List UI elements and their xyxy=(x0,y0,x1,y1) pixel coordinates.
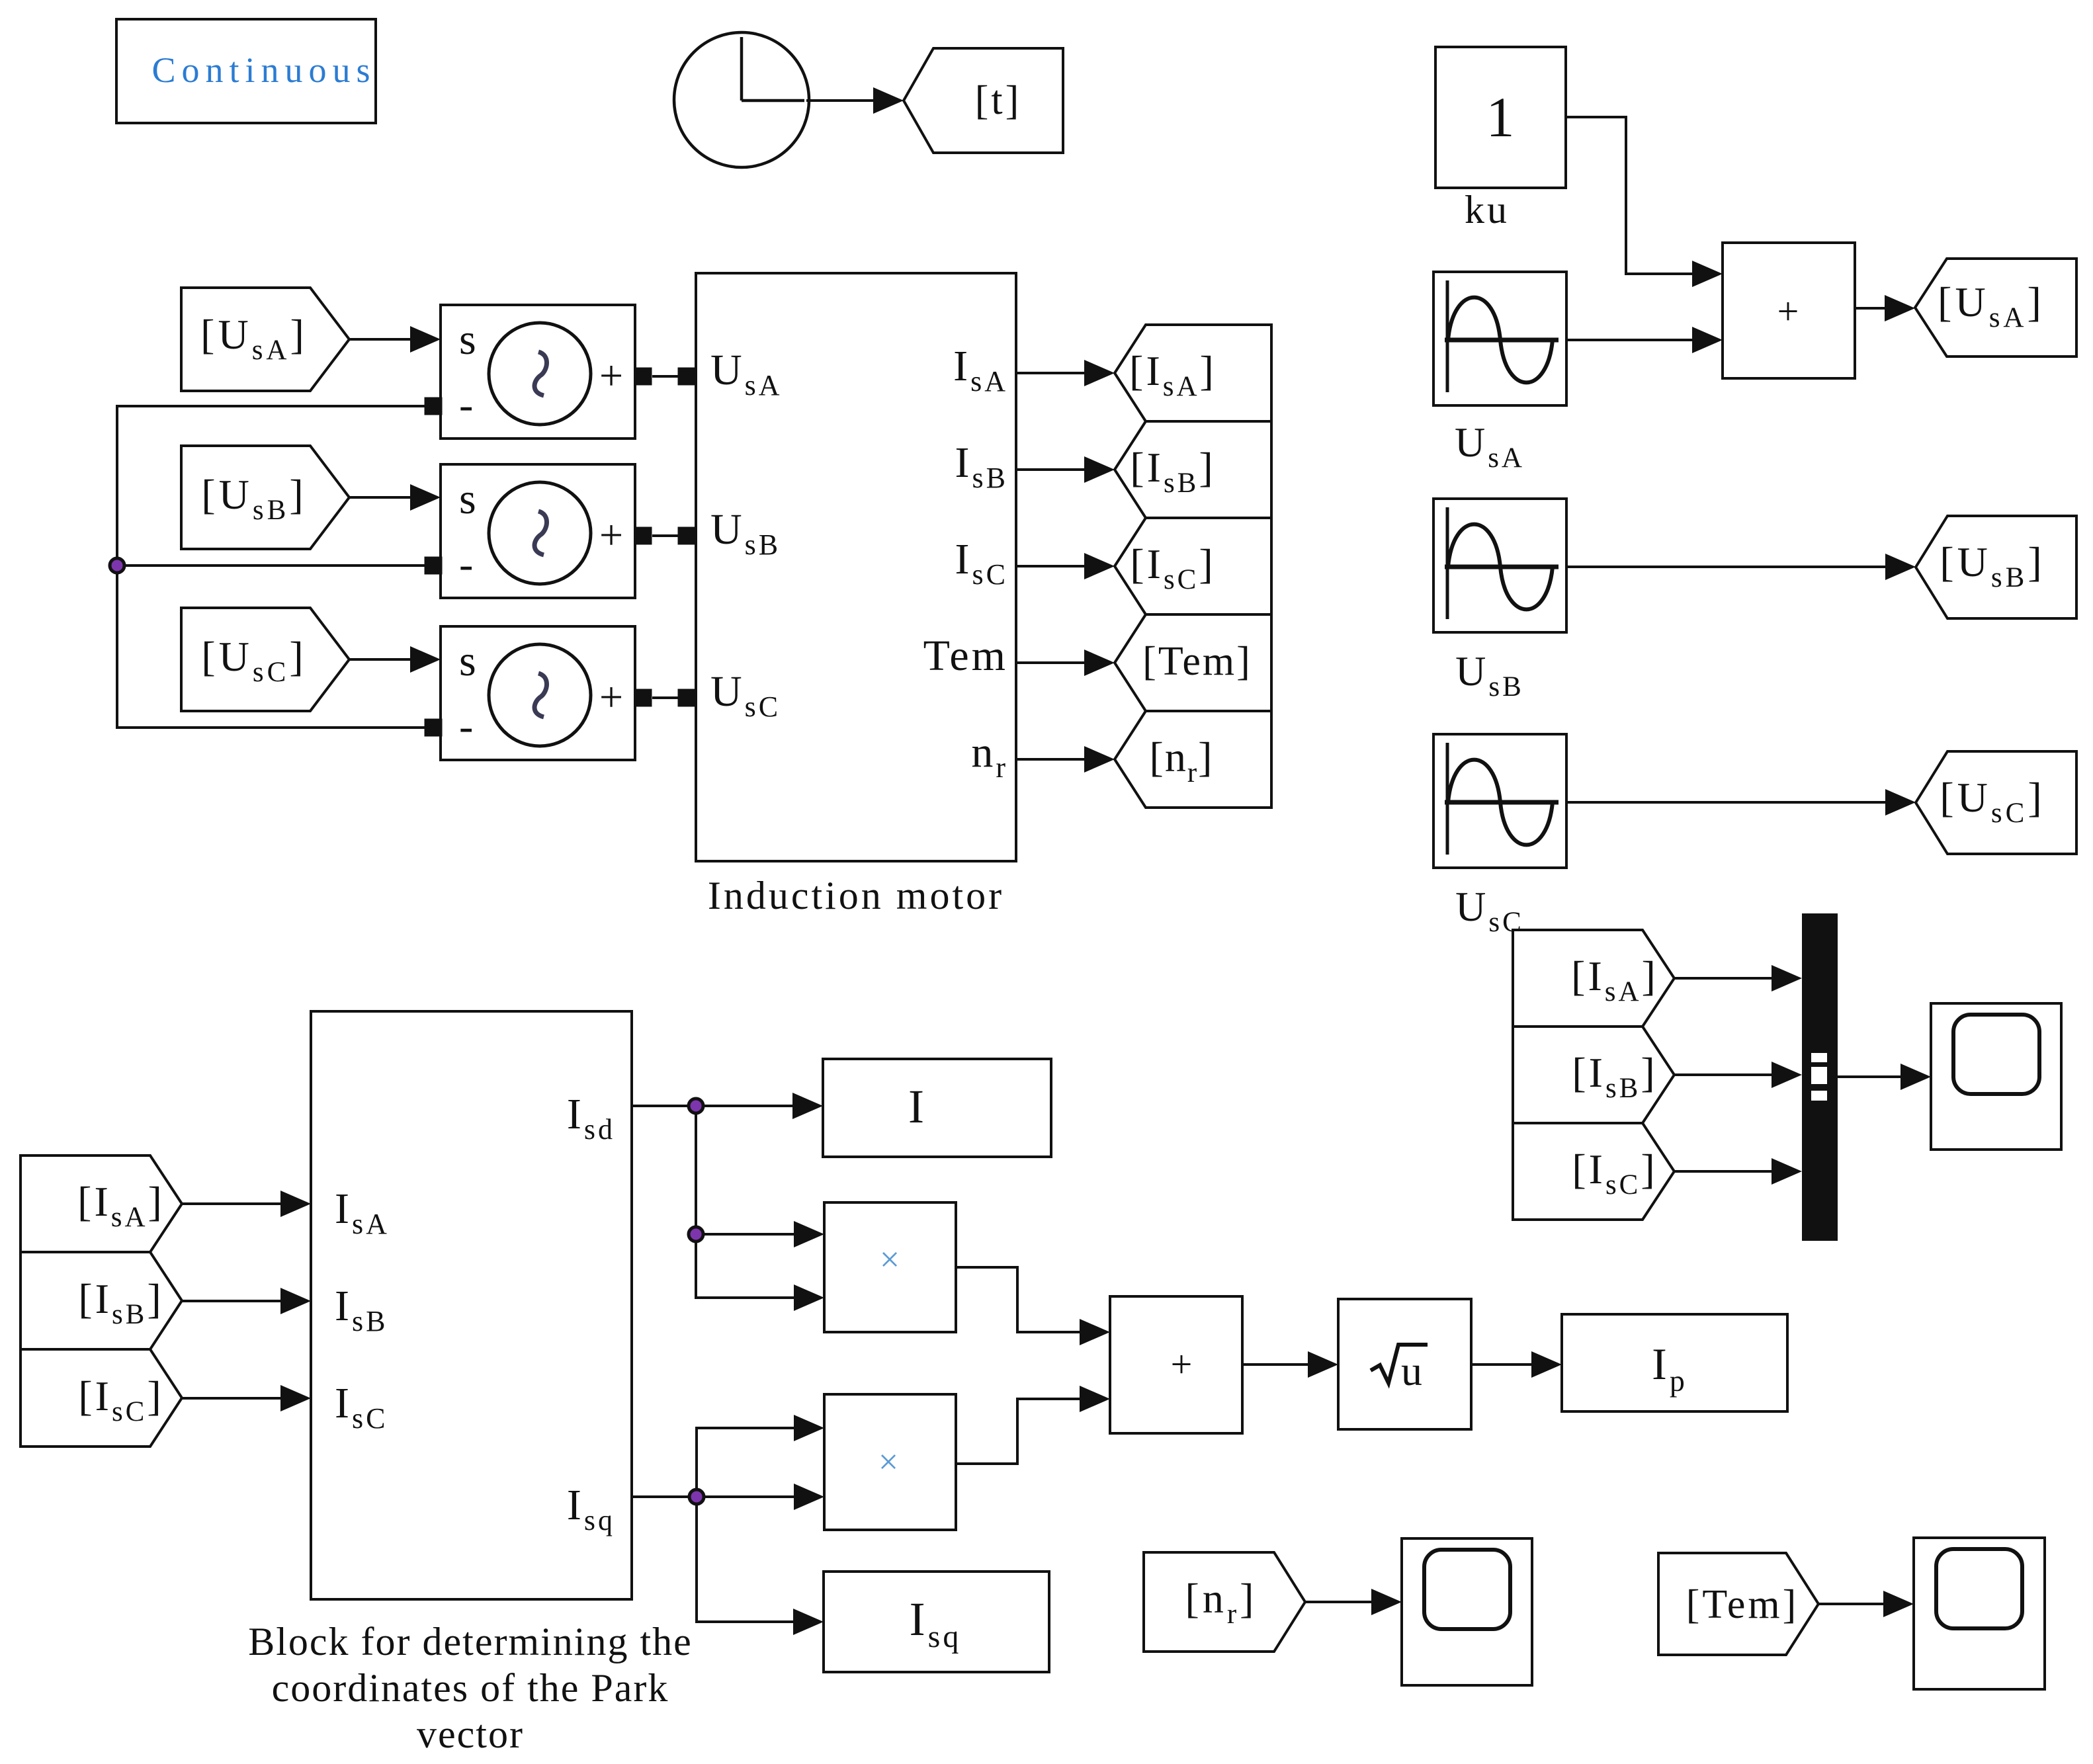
label Induction motor xyxy=(708,874,1004,917)
svg-text:Tem: Tem xyxy=(923,632,1008,680)
wire source A plus to motor xyxy=(652,375,679,378)
scope block currents xyxy=(1931,1003,2061,1150)
sum block bottom xyxy=(1110,1296,1242,1433)
wire [Tem] to scope xyxy=(1818,1591,1914,1617)
from tag [IsC] park xyxy=(21,1349,182,1447)
wire motor output 5 xyxy=(1016,746,1115,773)
wire neutral branch to source B xyxy=(117,564,425,567)
wire ku to sum xyxy=(1566,117,1723,287)
from tag [nr] xyxy=(1144,1552,1305,1652)
wire source C plus to motor xyxy=(652,696,679,699)
park vector block xyxy=(311,1011,632,1599)
goto tag [t] xyxy=(904,48,1063,153)
svg-text:s: s xyxy=(459,475,476,523)
wire Isq main xyxy=(632,1484,824,1510)
svg-text:I: I xyxy=(908,1080,924,1133)
wire clock to [t] xyxy=(806,87,904,114)
constant block 1 (ku) xyxy=(1435,47,1566,188)
sine wave block UsA xyxy=(1433,272,1566,405)
from tag [IsC] mux xyxy=(1513,1123,1674,1220)
display block I xyxy=(823,1059,1051,1157)
label ku xyxy=(1465,188,1510,231)
goto tag [Tem] xyxy=(1115,614,1271,711)
wire motor output 4 xyxy=(1016,650,1115,676)
display block Ip xyxy=(1562,1314,1787,1411)
sqrt block xyxy=(1338,1299,1471,1429)
junction Isd 2 xyxy=(689,1227,703,1241)
product block 1 xyxy=(824,1202,956,1332)
wire Isd branch to product1 xyxy=(696,1221,824,1247)
display block Isq xyxy=(824,1572,1049,1672)
svg-text:-: - xyxy=(459,702,473,749)
svg-text:s: s xyxy=(459,315,476,364)
svg-text:[nr]: [nr] xyxy=(1185,1575,1258,1630)
wire [IsB] to park xyxy=(182,1288,311,1314)
wire sum to sqrt xyxy=(1242,1351,1338,1378)
wire sineA to sum xyxy=(1566,327,1723,353)
mux block xyxy=(1802,913,1838,1241)
svg-text:Induction motor: Induction motor xyxy=(708,874,1004,917)
wire motor output 3 xyxy=(1016,553,1115,579)
wire motor output 1 xyxy=(1016,360,1115,386)
from tag [UsC] xyxy=(181,608,349,711)
svg-text:×: × xyxy=(880,1239,900,1279)
from tag [IsA] mux xyxy=(1513,930,1674,1027)
controlled voltage source A xyxy=(425,305,652,439)
product block 2 xyxy=(824,1394,956,1530)
sine wave block UsC xyxy=(1433,734,1566,868)
wire [IsA] to park xyxy=(182,1191,311,1217)
wire [IsB] to mux xyxy=(1674,1062,1802,1088)
label park block line2 xyxy=(272,1666,669,1710)
from tag [UsA] xyxy=(181,288,349,391)
sum block top right xyxy=(1723,243,1855,378)
svg-text:u: u xyxy=(1401,1347,1422,1394)
wire motor output 2 xyxy=(1016,456,1115,483)
svg-text:+: + xyxy=(1171,1343,1193,1386)
from tag [IsB] park xyxy=(21,1252,182,1349)
wire neutral trunk xyxy=(117,406,425,728)
wire product1 to sum xyxy=(956,1267,1110,1345)
wire Isd branch down xyxy=(696,1106,824,1311)
goto tag [UsB] xyxy=(1916,516,2076,618)
svg-text:coordinates of the Park: coordinates of the Park xyxy=(272,1666,669,1710)
svg-text:×: × xyxy=(878,1442,898,1482)
sine wave block UsB xyxy=(1433,499,1566,632)
svg-text:+: + xyxy=(1777,290,1799,333)
svg-text:[t]: [t] xyxy=(975,78,1022,123)
svg-text:ku: ku xyxy=(1465,188,1510,231)
scope block nr xyxy=(1402,1538,1532,1685)
label UsA xyxy=(1455,419,1525,474)
induction motor block xyxy=(678,273,1017,861)
svg-text:1: 1 xyxy=(1486,85,1515,149)
wire Isq branch up xyxy=(697,1415,824,1497)
clock block xyxy=(674,32,809,167)
wire sineC to [UsC] xyxy=(1566,789,1916,816)
svg-text:Continuous: Continuous xyxy=(151,50,376,90)
wire [IsC] to mux xyxy=(1674,1158,1802,1185)
goto tag [UsC] xyxy=(1916,751,2076,854)
wire Isq branch down xyxy=(697,1497,824,1635)
label UsC xyxy=(1455,883,1524,938)
wire [UsB] to source B xyxy=(349,484,441,511)
controlled voltage source B xyxy=(425,464,652,598)
svg-text:vector: vector xyxy=(417,1712,524,1756)
junction Isd 1 xyxy=(689,1099,703,1113)
wire sum to [UsA] xyxy=(1855,295,1915,321)
from tag [IsA] park xyxy=(21,1155,182,1252)
goto tag [IsA] xyxy=(1115,325,1271,421)
wire [UsC] to source C xyxy=(349,646,441,673)
junction Isq xyxy=(689,1490,704,1504)
wire [nr] to scope xyxy=(1305,1589,1402,1615)
from tag [IsB] mux xyxy=(1513,1027,1674,1123)
svg-text:s: s xyxy=(459,637,476,685)
wire [UsA] to source A xyxy=(349,326,441,353)
svg-text:[Tem]: [Tem] xyxy=(1686,1582,1799,1627)
goto tag [nr] xyxy=(1115,711,1271,808)
label park block line1 xyxy=(248,1620,693,1663)
svg-text:+: + xyxy=(599,511,623,558)
label UsB xyxy=(1455,648,1524,702)
wire [IsA] to mux xyxy=(1674,965,1802,991)
label park block line3 xyxy=(417,1712,524,1756)
svg-text:-: - xyxy=(459,540,473,587)
wire sineB to [UsB] xyxy=(1566,554,1916,580)
from tag [Tem] xyxy=(1658,1553,1818,1655)
svg-text:Block for determining the: Block for determining the xyxy=(248,1620,693,1663)
svg-text:+: + xyxy=(599,673,623,720)
wire [IsC] to park xyxy=(182,1385,311,1411)
svg-text:[nr]: [nr] xyxy=(1150,734,1214,788)
goto tag [IsC] xyxy=(1115,518,1271,614)
block Continuous (solver annotation) xyxy=(116,19,376,123)
wire mux to scope xyxy=(1838,1064,1931,1090)
wire Isd to I display xyxy=(632,1093,823,1119)
controlled voltage source C xyxy=(425,626,652,760)
svg-text:-: - xyxy=(459,381,473,428)
wire sqrt to Ip xyxy=(1471,1351,1562,1378)
junction neutral xyxy=(110,558,124,573)
svg-text:[Tem]: [Tem] xyxy=(1142,639,1252,684)
goto tag [UsA] xyxy=(1915,259,2076,357)
wire product2 to sum xyxy=(956,1386,1110,1464)
from tag [UsB] xyxy=(181,446,349,549)
scope block Tem xyxy=(1914,1538,2045,1689)
wire source B plus to motor xyxy=(652,534,679,537)
svg-text:+: + xyxy=(599,352,623,399)
goto tag [IsB] xyxy=(1115,421,1271,518)
